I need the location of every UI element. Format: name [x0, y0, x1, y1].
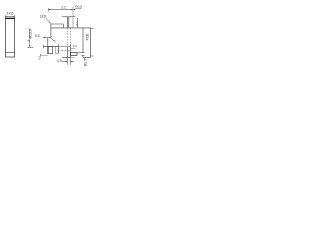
- top dim left tick: [47, 8, 49, 11]
- mid vertical dim arrowhead: [29, 45, 30, 47]
- panel right edge: [90, 28, 92, 58]
- LED leader line: [46, 18, 51, 23]
- extension line x73: [72, 7, 74, 28]
- svg-text:PCB: PCB: [85, 33, 89, 41]
- svg-text:14.6: 14.6: [7, 12, 14, 16]
- pin hidden line left: [66, 28, 68, 47]
- front view top cap thick edge: [6, 17, 15, 19]
- pin right edge: [68, 17, 70, 28]
- panel left edge upper: [82, 28, 84, 53]
- svg-text:4.5: 4.5: [57, 59, 62, 63]
- width dim left extension: [4, 15, 6, 18]
- bottom dim arrow right: [70, 61, 74, 63]
- terminal left line: [66, 47, 68, 58]
- panel bottom right tick: [91, 55, 93, 57]
- LED leader arrowhead: [49, 22, 51, 24]
- radius callout hook: [54, 41, 56, 43]
- step dim tick: [44, 37, 46, 39]
- LED block top edge: [51, 23, 64, 25]
- pin width dimension line: [62, 16, 76, 18]
- mid dim extension hline: [27, 46, 33, 48]
- width dimension line: [5, 16, 15, 18]
- bottom dim arrow right head: [70, 61, 72, 62]
- bottom line faint continuation: [71, 56, 75, 58]
- lower dim tick x40: [39, 54, 41, 57]
- bottom dim extension left: [66, 57, 68, 64]
- bottom dim arrow left head: [65, 61, 67, 62]
- pin left edge: [66, 17, 68, 28]
- tab top line to panel: [77, 52, 83, 54]
- pin height dim bottom arrowhead: [77, 26, 78, 28]
- lower dim line y55: [40, 54, 47, 56]
- mid vertical dim top arrowhead: [29, 28, 30, 30]
- svg-text:2.1: 2.1: [61, 5, 66, 9]
- body bottom edge: [43, 46, 58, 48]
- bottom dim extension right: [69, 57, 71, 64]
- svg-text:R0.8: R0.8: [75, 5, 82, 9]
- panel left edge lower: [82, 55, 84, 57]
- front view base inner line: [5, 52, 14, 54]
- pin box 2 right edge dark: [57, 45, 59, 54]
- width dim right extension: [14, 15, 16, 18]
- pin width right arrowhead: [69, 16, 71, 17]
- body bottom edge right faint part: [58, 46, 70, 48]
- svg-text:3: 3: [27, 40, 31, 42]
- small up arrow under panel: [84, 58, 85, 60]
- R0.8 underline: [75, 7, 81, 9]
- svg-text:Ø13.5: Ø13.5: [28, 29, 32, 38]
- svg-text:0.5: 0.5: [37, 55, 41, 59]
- svg-text:5.5: 5.5: [35, 34, 40, 38]
- panel bottom edge: [83, 56, 91, 58]
- tab box: [70, 53, 77, 56]
- svg-text:0.5: 0.5: [73, 44, 77, 48]
- width dim left arrowhead: [6, 16, 8, 17]
- width dim right arrowhead: [13, 16, 15, 17]
- top dim arrowhead at x73: [71, 9, 73, 10]
- body left edge: [50, 24, 52, 38]
- small dim arrow y48.8: [71, 48, 75, 50]
- bottom line under terminal: [62, 56, 71, 58]
- pin box 1 left edge thick: [47, 47, 49, 54]
- front view body rectangle: [5, 19, 14, 57]
- pin width left arrowhead: [65, 16, 67, 17]
- panel left small dim tick lower: [82, 54, 85, 56]
- panel left small dim tick upper: [82, 52, 85, 54]
- bottom dim arrow left: [62, 61, 67, 63]
- dim tick on body bottom: [43, 45, 45, 49]
- flange front edge: [47, 38, 49, 47]
- svg-text:9.1: 9.1: [75, 21, 79, 26]
- top dim arrowhead right side: [73, 9, 75, 10]
- pin box 1: [48, 47, 53, 54]
- step horizontal line: [42, 37, 50, 39]
- pin box 2: [56, 47, 59, 54]
- panel top right tick: [91, 28, 94, 30]
- LED block right edge: [62, 24, 64, 28]
- top dim left arrowhead: [48, 9, 50, 10]
- radius callout horizontal: [53, 40, 55, 42]
- terminal right line: [69, 45, 71, 58]
- body top edge: [51, 27, 91, 29]
- svg-text:LED: LED: [40, 15, 47, 19]
- pin height dim line: [77, 18, 79, 28]
- top dimension line of side view: [48, 9, 75, 11]
- svg-text:Ø1.0: Ø1.0: [83, 59, 87, 66]
- arrowhead at bottom of pin box 2 edge: [58, 52, 59, 54]
- center dash line: [57, 50, 70, 52]
- radius callout diagonal at step corner: [51, 38, 53, 40]
- pin hidden line right: [69, 28, 71, 47]
- mid vertical dim line: [29, 30, 31, 47]
